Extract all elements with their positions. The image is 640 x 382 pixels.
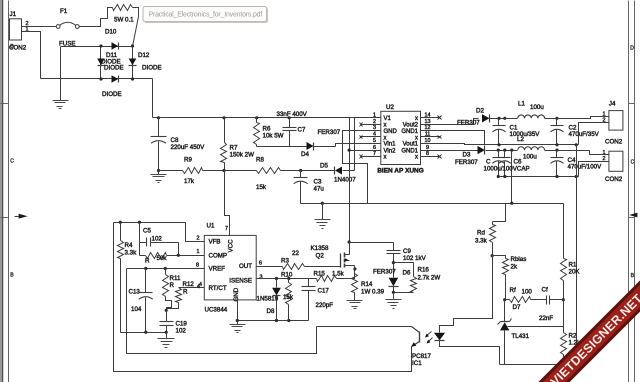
svg-text:50k: 50k [157, 255, 168, 262]
svg-text:COMP: COMP [209, 252, 228, 259]
label C9 [403, 248, 411, 255]
svg-text:100: 100 [522, 289, 533, 296]
node bridge top right [131, 44, 134, 47]
connector J1 box [10, 19, 22, 40]
label DIODE b [104, 65, 124, 72]
x marks right pins [438, 116, 442, 159]
wire LED feed [440, 256, 493, 333]
svg-text:TL431: TL431 [512, 333, 530, 340]
svg-text:R: R [183, 289, 188, 296]
label K1358 [311, 245, 329, 252]
label D2 [476, 108, 484, 115]
svg-text:22: 22 [292, 250, 299, 257]
fuse F1 label [60, 8, 68, 15]
label 33nF 400V [277, 111, 308, 118]
svg-text:1: 1 [373, 113, 376, 119]
svg-text:K1358: K1358 [311, 245, 329, 252]
label C17 value [316, 302, 334, 309]
label C19 value [176, 328, 187, 335]
svg-text:102 1kV: 102 1kV [403, 255, 427, 262]
wire J4 pin2 [579, 123, 609, 145]
diode D4 [307, 142, 336, 151]
node bridge bottom right [131, 77, 134, 80]
diode D8 [272, 279, 281, 321]
wire pin10 rail [441, 144, 579, 145]
svg-text:5W 0.1: 5W 0.1 [114, 17, 134, 24]
label R16 value [418, 275, 441, 282]
resistor R1 [561, 204, 567, 300]
label C13 value [131, 306, 142, 313]
svg-text:1000u/35V: 1000u/35V [510, 131, 541, 138]
label D11 [106, 52, 117, 59]
svg-text:VREF: VREF [209, 266, 226, 273]
svg-text:1: 1 [603, 150, 606, 156]
wire U1 gnd stub [237, 300, 239, 321]
label 1N4007 [334, 177, 356, 184]
node D6 bottom [392, 291, 395, 294]
label C9 value [403, 255, 427, 262]
svg-text:1N4007: 1N4007 [334, 177, 356, 184]
label C6 [514, 159, 522, 166]
node divider tap mid [575, 175, 578, 178]
node R4 top [119, 221, 122, 224]
label R1 value [569, 269, 581, 276]
label D8 [267, 308, 275, 315]
svg-text:1000u/100VCAP: 1000u/100VCAP [484, 166, 530, 173]
wire LED cathode [440, 341, 500, 365]
label C7 [298, 127, 306, 134]
svg-text:x: x [384, 154, 387, 160]
node capB bottom [503, 175, 506, 178]
svg-text:R16: R16 [418, 267, 430, 274]
label R3 [281, 258, 289, 265]
label 1N5819 [257, 296, 279, 303]
left border arrow [15, 214, 28, 219]
svg-text:Rd: Rd [477, 230, 485, 237]
J1 pin 2 number [26, 21, 29, 27]
svg-text:VCC: VCC [228, 239, 235, 253]
svg-text:8: 8 [426, 151, 429, 157]
wire D5 anode up [354, 118, 356, 171]
wire AC neutral to ground [60, 47, 62, 101]
connector CON2 box [609, 151, 623, 171]
pin numbers right [425, 113, 431, 157]
svg-text:x: x [415, 154, 418, 160]
label R14 [361, 281, 373, 288]
capacitor C 1000u100V [492, 151, 504, 177]
svg-text:R15: R15 [314, 271, 326, 278]
wire U2 pin6 to drain [350, 118, 381, 254]
ground C8 [151, 171, 167, 183]
label R9 value [184, 178, 195, 185]
fuse F1 [56, 22, 79, 28]
svg-text:R2: R2 [569, 333, 577, 340]
resistor R10 [286, 279, 292, 321]
node D8 bottom [275, 319, 278, 322]
wire pin12 drop [441, 131, 485, 145]
resistor R2 [561, 300, 567, 365]
sheet border lines right [629, 1, 635, 382]
svg-text:D7: D7 [513, 304, 521, 311]
label L2 value [523, 154, 537, 161]
svg-text:3.3k: 3.3k [125, 250, 138, 257]
svg-text:C: C [486, 159, 491, 166]
svg-text:15k: 15k [256, 184, 267, 191]
inductor L2 [518, 147, 590, 151]
node C3 top [299, 169, 302, 172]
svg-text:1: 1 [603, 111, 606, 117]
label PC817 [412, 353, 431, 360]
svg-text:U2: U2 [386, 104, 394, 111]
svg-text:C19: C19 [176, 321, 188, 328]
label R12 [183, 281, 195, 288]
svg-text:PC817: PC817 [412, 353, 431, 360]
label D7 [513, 304, 521, 311]
label C2 value [569, 131, 600, 138]
svg-text:1.5k: 1.5k [332, 271, 345, 278]
svg-text:D2: D2 [476, 108, 484, 115]
tooltip text [149, 12, 263, 19]
wire ISENSE line [257, 278, 317, 280]
svg-text:Vin1: Vin1 [384, 142, 397, 148]
ground C19 [158, 333, 175, 348]
U1 pin labels [209, 239, 253, 292]
svg-text:7: 7 [225, 226, 228, 232]
capacitor C7 [283, 118, 297, 147]
node mid rail ground tap [321, 202, 324, 205]
wire VREF rail [127, 268, 205, 270]
diode D12 [129, 47, 137, 79]
resistor Rd [490, 204, 506, 256]
label J4 CON2 [605, 139, 623, 146]
U2 left pin labels [384, 116, 398, 160]
diode D5 [301, 167, 355, 175]
opto light arrows [425, 332, 433, 344]
svg-text:GND: GND [233, 287, 240, 301]
svg-text:L1: L1 [518, 101, 525, 108]
label Q2 [316, 253, 325, 260]
node Rf Rbias [503, 298, 506, 301]
label D3 [463, 152, 471, 159]
node C5 branch top [138, 221, 141, 224]
svg-text:CON2: CON2 [605, 139, 623, 146]
label FER307 D3 [455, 159, 478, 166]
svg-text:4: 4 [373, 132, 376, 138]
svg-text:R1: R1 [569, 262, 577, 269]
svg-text:x: x [415, 135, 418, 141]
svg-text:Rf: Rf [510, 287, 516, 294]
svg-text:U1: U1 [207, 223, 215, 230]
node C13 bottom [144, 331, 147, 334]
wire bridge to HV rail [152, 79, 154, 118]
resistor 5W 0.1 [113, 5, 133, 11]
zone letter D right [630, 46, 634, 52]
wire L1 to J4 pin1 [557, 117, 609, 119]
resistor R15 [317, 269, 355, 282]
CON2 pin2 number [603, 156, 606, 162]
svg-text:4: 4 [197, 284, 200, 290]
node R7 top [222, 116, 225, 119]
label C C6 value [484, 166, 530, 173]
label R12 pin4 [197, 284, 200, 290]
node cap100 b top [503, 149, 506, 152]
svg-text:11: 11 [425, 132, 431, 138]
label R11 [170, 275, 181, 282]
node divider mid [562, 298, 565, 301]
label R16 [418, 267, 430, 274]
label C [486, 159, 491, 166]
zone letter C right [631, 160, 635, 166]
svg-text:R9: R9 [184, 157, 192, 164]
node capA bottom [497, 175, 500, 178]
wire collector to VREF loop [127, 269, 317, 354]
tooltip box [143, 7, 267, 23]
svg-text:6: 6 [259, 261, 262, 267]
label R7 value [230, 152, 255, 159]
label IC1 [412, 360, 422, 367]
label FER307 D2 [457, 120, 480, 127]
resistor 5W 0.1 label [114, 17, 134, 24]
svg-text:102: 102 [176, 328, 187, 335]
wire U2 pin3 route [343, 131, 381, 204]
label R10 [281, 272, 293, 279]
TL431 U3 [498, 300, 512, 365]
label TL431 [512, 333, 530, 340]
svg-text:RT/CT: RT/CT [209, 285, 227, 292]
svg-text:D3: D3 [463, 152, 471, 159]
x marks left pins [360, 123, 363, 159]
svg-text:C7: C7 [298, 127, 306, 134]
ground mid rail [315, 204, 331, 229]
svg-text:D6: D6 [403, 270, 411, 277]
node L1 C2 [555, 117, 558, 120]
svg-text:17k: 17k [184, 178, 195, 185]
wire R6 C7 bottom [257, 146, 307, 148]
label Rf [510, 287, 516, 294]
wire pin13 to D2 [441, 119, 479, 125]
label U1 [207, 223, 215, 230]
wire mid rail [301, 203, 564, 205]
resistor R16 [394, 263, 417, 293]
wire R7 node to VCC [225, 171, 230, 236]
label C13 [129, 289, 141, 296]
resistor Rf [505, 297, 543, 303]
wire C5 R5 left branch [139, 223, 141, 256]
svg-text:IC1: IC1 [412, 360, 422, 367]
label R5 [145, 258, 150, 265]
border tick left upper [1, 103, 9, 105]
zone letter D left [10, 44, 14, 50]
node R6 top [255, 116, 258, 119]
label R7 [230, 145, 238, 152]
ground snubber [386, 293, 402, 309]
label UC3844 [205, 307, 228, 314]
svg-text:2.7k 2W: 2.7k 2W [418, 275, 441, 282]
svg-text:15k: 15k [283, 294, 294, 301]
resistor R14 [352, 269, 358, 301]
border tick left lower [1, 217, 9, 219]
capacitor C1 [493, 117, 506, 145]
U2 right pin labels [401, 116, 418, 160]
J4 pin2 number [603, 118, 606, 124]
svg-text:R10: R10 [281, 272, 293, 279]
label R9 [184, 157, 192, 164]
window edge strip left [0, 0, 3, 382]
svg-text:2: 2 [197, 236, 200, 242]
node pin6 drain wire [348, 149, 351, 152]
label L2 [517, 136, 524, 143]
svg-text:J1: J1 [10, 11, 17, 18]
svg-text:2: 2 [603, 118, 606, 124]
wire VFB top rail [114, 223, 205, 242]
svg-text:Q2: Q2 [316, 253, 325, 260]
label FUSE [59, 41, 76, 48]
wire return to CON2 pin2 [579, 162, 609, 177]
wire L2 to CON2 pin1 [590, 151, 609, 155]
label C1 [510, 125, 518, 132]
wire emitter to VFB loop [114, 223, 412, 372]
label DIODE d [102, 91, 122, 98]
svg-text:10k 5W: 10k 5W [263, 133, 284, 140]
label R3 value [292, 250, 299, 257]
svg-text:R: R [145, 258, 150, 265]
svg-text:D8: D8 [267, 308, 275, 315]
node R10 top [287, 277, 290, 280]
svg-text:5: 5 [373, 138, 376, 144]
label D5 [320, 163, 328, 170]
svg-text:BIEN AP XUNG: BIEN AP XUNG [377, 168, 424, 175]
svg-text:FER307: FER307 [455, 159, 478, 166]
svg-text:GND: GND [384, 129, 398, 135]
node divider feed top [510, 149, 558, 152]
wire OUT to R3 [257, 266, 283, 268]
capacitor C17 [302, 279, 316, 321]
svg-text:2k: 2k [511, 264, 518, 271]
svg-text:x: x [384, 135, 387, 141]
node R10 bottom [287, 319, 290, 322]
svg-text:1N5819: 1N5819 [257, 296, 279, 303]
wire C5 right down [178, 243, 180, 256]
svg-text:100u: 100u [523, 154, 537, 161]
svg-text:V1: V1 [384, 116, 392, 122]
wire resistor to bridge corner [133, 8, 139, 47]
zone letter C left [10, 159, 14, 165]
label C4 [568, 157, 576, 164]
svg-text:D10: D10 [105, 29, 117, 36]
label R2 value [569, 340, 582, 347]
svg-text:8: 8 [196, 263, 199, 269]
svg-text:2: 2 [373, 119, 376, 125]
svg-text:C: C [631, 160, 635, 166]
svg-text:20K: 20K [569, 269, 581, 276]
border tick right upper [629, 103, 635, 105]
svg-text:DIODE: DIODE [104, 65, 124, 72]
capacitor C4 [551, 151, 564, 177]
node bridge bottom left [99, 77, 102, 80]
svg-text:FER307: FER307 [318, 129, 341, 136]
wire analog gnd rail [121, 332, 167, 334]
label C4 value [568, 164, 603, 171]
J1 pin 1 number [26, 27, 29, 33]
label R10 value [283, 294, 294, 301]
svg-text:C5: C5 [143, 228, 151, 235]
label R14 value [361, 289, 385, 296]
node divider feed bottom [510, 202, 513, 205]
svg-text:CON2: CON2 [9, 45, 27, 52]
diode bridge left [97, 47, 105, 79]
label Rbias [511, 256, 527, 263]
wire fuse to resistor [80, 8, 113, 27]
diode D2 [482, 114, 505, 122]
label FER307 D6 [373, 269, 396, 276]
wire control gnd rail [237, 320, 309, 322]
svg-text:C: C [10, 159, 14, 165]
node D8 top [275, 277, 278, 280]
connector J4 box [609, 111, 623, 131]
svg-text:3.3k: 3.3k [475, 238, 488, 245]
capacitor C3 [294, 171, 308, 204]
node cap100 a top [497, 149, 500, 152]
label C5 value [152, 236, 163, 243]
node C19 bottom [165, 331, 168, 334]
ground R14 [347, 301, 363, 309]
svg-text:R6: R6 [263, 126, 271, 133]
label D4 [301, 151, 309, 158]
label R5 value [157, 255, 168, 262]
U1 VCC label [228, 239, 235, 253]
capacitor C2 [551, 119, 564, 145]
label DIODE c [142, 65, 162, 72]
label C2 [569, 125, 577, 132]
node bridge top left [99, 44, 102, 47]
label C8 value [171, 144, 206, 151]
svg-text:33nF 400V: 33nF 400V [277, 111, 308, 118]
transformer U2 box [381, 111, 421, 164]
node R11 top [164, 267, 167, 270]
label FER307 D4 [318, 129, 341, 136]
resistor R12 [167, 288, 205, 311]
right border arrow [629, 213, 637, 218]
opto LED diode [434, 333, 445, 341]
label R8 value [256, 184, 267, 191]
node U1 gnd [236, 319, 239, 322]
wire bridge bottom [41, 78, 153, 80]
node divider tap top [575, 143, 578, 146]
resistor R6 [254, 118, 260, 147]
label D10 [105, 29, 117, 36]
diode bridge bottom [112, 75, 119, 83]
resistor R7 [221, 118, 227, 171]
svg-text:F1: F1 [60, 8, 68, 15]
J4 pin1 number [603, 111, 606, 117]
svg-text:OUT: OUT [239, 263, 252, 270]
inductor L1 [505, 115, 557, 119]
svg-text:R7: R7 [230, 145, 238, 152]
label C1 value [510, 131, 541, 138]
wire 100V return rail [498, 176, 579, 178]
node D2 L1 [503, 117, 506, 120]
node C1 bottom [497, 143, 500, 146]
label C8 [171, 137, 179, 144]
svg-text:C17: C17 [318, 288, 330, 295]
ground U1 [230, 321, 246, 333]
svg-text:47u: 47u [314, 186, 325, 193]
label Rd value [475, 238, 488, 245]
connector J1 CON2 label [9, 45, 27, 52]
svg-text:DIODE: DIODE [142, 65, 162, 72]
svg-text:C9: C9 [403, 248, 411, 255]
svg-text:Vout1: Vout1 [403, 142, 419, 148]
